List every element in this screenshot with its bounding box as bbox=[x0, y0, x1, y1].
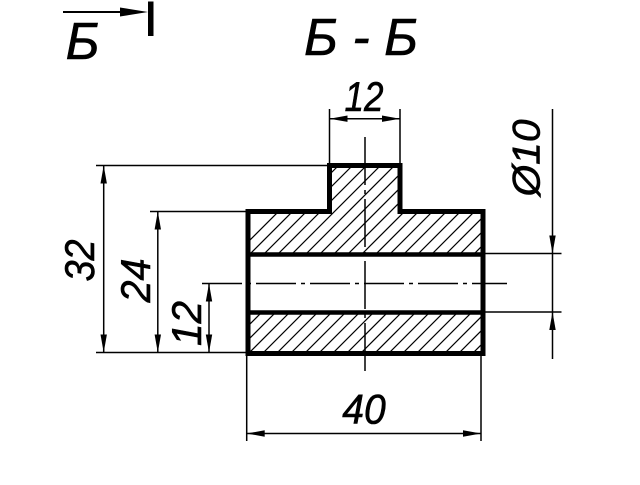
svg-text:32: 32 bbox=[56, 240, 103, 282]
svg-text:Ø10: Ø10 bbox=[506, 119, 549, 198]
svg-text:Б: Б bbox=[66, 13, 100, 71]
svg-text:24: 24 bbox=[112, 259, 159, 304]
svg-text:12: 12 bbox=[163, 301, 210, 346]
svg-text:Б - Б: Б - Б bbox=[304, 9, 418, 67]
svg-text:40: 40 bbox=[342, 386, 386, 433]
svg-text:12: 12 bbox=[345, 73, 384, 120]
